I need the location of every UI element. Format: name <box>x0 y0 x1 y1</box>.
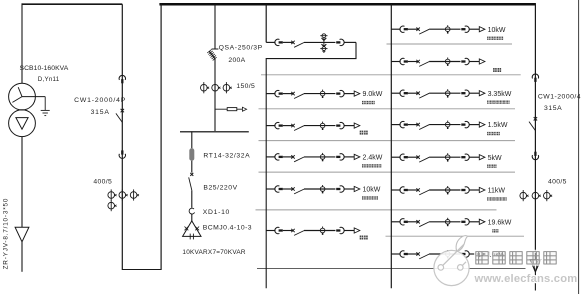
svg-text:200A: 200A <box>228 57 245 64</box>
feeder breaker row spare 2 <box>266 227 368 240</box>
grid separator line 7 <box>386 235 525 237</box>
svg-text:5kW: 5kW <box>488 155 502 162</box>
svg-text:9.0kW: 9.0kW <box>363 91 383 98</box>
grid separator line 1 <box>387 43 513 45</box>
svg-text:www.elecfans.com: www.elecfans.com <box>474 273 578 285</box>
svg-text:150/5: 150/5 <box>236 83 255 90</box>
breaker QF1 drawout bottom contact <box>119 150 125 158</box>
wire left bus drop <box>265 4 267 42</box>
feeder breaker row 11kW fans <box>391 186 506 201</box>
CT cluster 150/5 <box>201 82 232 93</box>
outgoing arrow to section 2 <box>530 260 540 272</box>
ground at transformer neutral <box>41 97 50 116</box>
wire <box>191 214 193 221</box>
wire cap branch <box>191 132 193 149</box>
switch B25/220V <box>189 173 194 191</box>
transformer T1 SCB10-160KVA <box>9 83 46 136</box>
grid separator line 5 <box>259 171 516 173</box>
wire transformer to main breaker <box>22 3 123 5</box>
svg-text:RT14-32/32A: RT14-32/32A <box>203 153 250 160</box>
grid separator line 3 <box>259 108 516 110</box>
svg-text:B25/220V: B25/220V <box>203 184 237 191</box>
grid separator line 4 <box>259 140 516 142</box>
svg-text:400/5: 400/5 <box>548 179 567 186</box>
feeder breaker row 5kW elevator <box>391 153 502 168</box>
wire QSA drop <box>214 4 216 49</box>
svg-text:19.6kW: 19.6kW <box>488 219 512 226</box>
drawing frame border <box>578 0 580 294</box>
svg-text:10kW: 10kW <box>488 27 506 34</box>
wire <box>191 161 193 173</box>
fuse FU1 RT14-32/32A <box>189 148 194 160</box>
feeder breaker row 1.5kW sockets <box>391 121 508 136</box>
feeder breaker row 16kW <box>391 250 506 259</box>
CT cluster 400/5 left <box>108 189 139 211</box>
capacitor bank BCMJ0.4-10-3 <box>183 221 201 240</box>
capacitor sub-bus <box>180 131 249 133</box>
wire bottom loop <box>122 269 162 271</box>
svg-text:SCB10-160KVA: SCB10-160KVA <box>20 65 69 72</box>
grid separator line 6 <box>256 209 497 211</box>
svg-text:BCMJ0.4-10-3: BCMJ0.4-10-3 <box>203 225 252 232</box>
wire right incomer <box>534 3 536 259</box>
svg-text:CW1-2000/4P: CW1-2000/4P <box>538 93 581 100</box>
metering PT/meter symbol <box>320 34 327 53</box>
svg-text:2.4kW: 2.4kW <box>363 155 383 162</box>
CT cluster 400/5 right <box>520 190 552 201</box>
disconnect QS1 QSA-250/3P <box>207 49 218 60</box>
svg-text:1.5kW: 1.5kW <box>488 122 508 129</box>
svg-text:10kW: 10kW <box>363 187 381 194</box>
svg-text:XD1-10: XD1-10 <box>203 209 230 216</box>
svg-text:QSA-250/3P: QSA-250/3P <box>219 44 263 51</box>
svg-text:ZR-YJV-8.7/10-3*50: ZR-YJV-8.7/10-3*50 <box>3 198 10 270</box>
svg-text:10KVARX7=70KVAR: 10KVARX7=70KVAR <box>182 249 246 256</box>
svg-text:D,Yn11: D,Yn11 <box>38 76 60 83</box>
grid separator line 2 <box>261 74 521 76</box>
svg-text:CW1-2000/4P: CW1-2000/4P <box>74 97 126 104</box>
feeder breaker row 3.35kW fire fan control <box>391 89 511 104</box>
watermark logo circle <box>434 236 469 286</box>
breaker QF2 drawout bottom contact <box>532 152 538 160</box>
grid separator line 8 <box>257 268 526 270</box>
svg-text:400/5: 400/5 <box>93 179 112 186</box>
breaker QF2 CW1-2000/4P drawout top contact <box>532 74 538 82</box>
main LV busbar <box>159 3 535 6</box>
feeder breaker row 9.0kW <box>266 90 383 105</box>
wire below arrow <box>534 272 536 291</box>
wire bus riser <box>160 3 162 269</box>
wire LV drop <box>21 137 23 228</box>
svg-text:315A: 315A <box>544 105 562 112</box>
wire <box>191 191 193 208</box>
svg-text:11kW: 11kW <box>488 188 506 195</box>
metering circuit row <box>266 39 356 47</box>
feeder breaker row 19.6kW <box>391 218 511 233</box>
wire cable tail <box>21 242 23 272</box>
feeder breaker row spare 3 <box>391 58 501 73</box>
reactor XD1-10 <box>189 208 194 214</box>
feeder breaker row spare 1 <box>266 122 368 135</box>
cable head terminal <box>15 227 29 242</box>
feeder breaker row 2.4kW <box>266 153 383 168</box>
wire right bus drop <box>390 4 392 288</box>
svg-text:3.35kW: 3.35kW <box>488 91 512 98</box>
wire metering return loop <box>266 42 356 288</box>
breaker QF1 contact and blade <box>116 109 124 123</box>
watermark text dianzifashaoyou <box>476 251 557 264</box>
wire HV riser <box>21 3 23 83</box>
wire incomer drop <box>121 4 123 269</box>
breaker QF1 CW1-2000/4P drawout top contact <box>119 75 125 83</box>
feeder breaker row 10kW DC panel <box>391 25 506 40</box>
breaker QF2 contact and blade <box>529 117 537 131</box>
svg-text:315A: 315A <box>91 109 110 116</box>
feeder breaker row 10kW distribution <box>266 185 381 200</box>
wire QSA lower <box>214 59 216 132</box>
fuse tap to metering <box>215 107 247 111</box>
